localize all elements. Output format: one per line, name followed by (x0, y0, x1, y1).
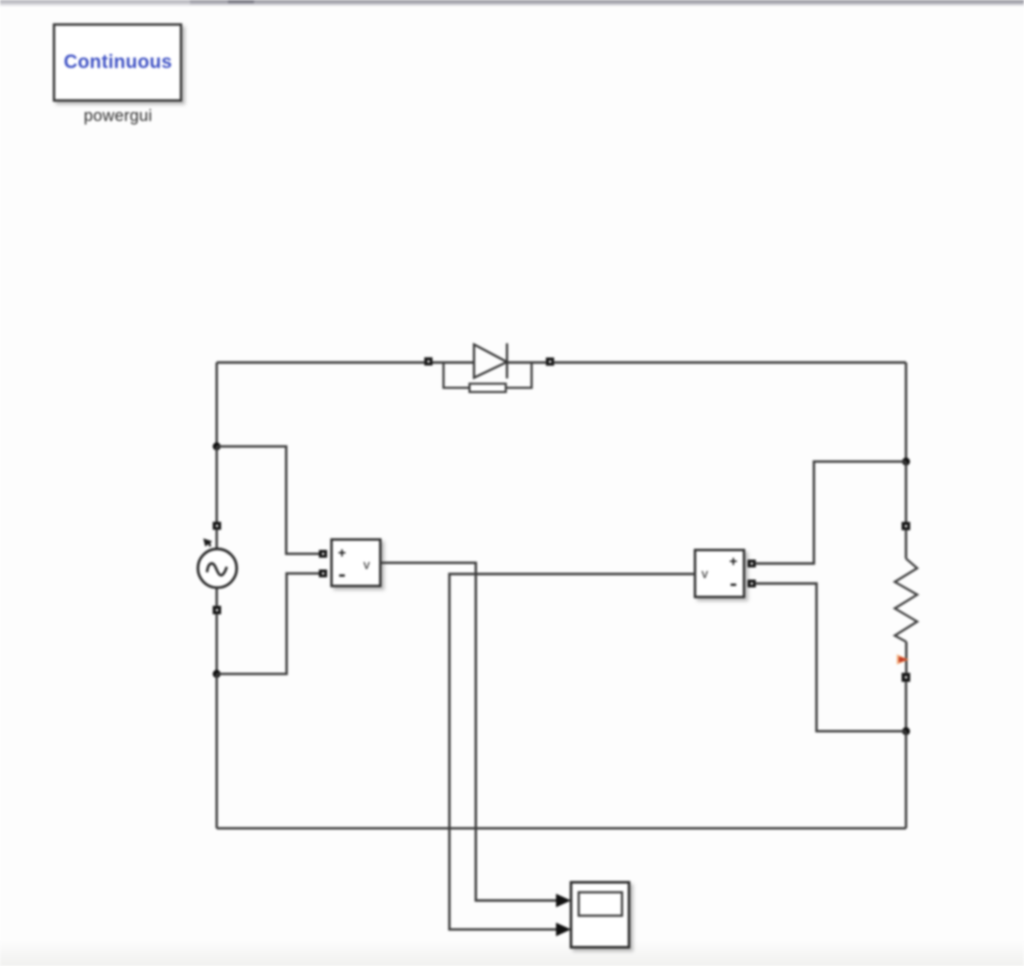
port: V1 plus input (319, 550, 327, 558)
scope input 2 arrowhead (556, 923, 571, 937)
snubber resistor Rs (470, 384, 506, 392)
svg-text:+: + (338, 545, 346, 561)
port: U2 minus input (748, 580, 756, 588)
wire: anode port to diode (433, 361, 475, 363)
port: U2 plus input (748, 560, 756, 568)
port: AC source minus terminal (213, 606, 221, 615)
wire: top rail left segment (217, 361, 425, 363)
node junction J1 (213, 442, 221, 450)
wire: U2 plus to J3 (756, 462, 906, 564)
diode D1 cathode bar (506, 343, 508, 378)
port: diode cathode (546, 358, 554, 366)
wire: J3 down to resistor top port (905, 462, 907, 522)
wire: bottom port down to J4 (905, 682, 907, 731)
wire: U2 output to scope input 2 (449, 574, 695, 929)
diode D1 triangle (474, 344, 507, 377)
wire: branch J1 to V1 plus input (217, 446, 319, 553)
wire: top-left vertical (source to top rail) (215, 363, 217, 447)
wire: bottom-left vertical J2 to bottom rail (215, 674, 217, 828)
voltage measurement U2 (695, 550, 744, 597)
wire: U2 minus to J4 (756, 584, 906, 732)
svg-text:+: + (729, 553, 737, 569)
scope input 1 arrowhead (556, 894, 571, 908)
svg-text:powergui: powergui (84, 107, 153, 125)
AC voltage source V (circle with sine) (198, 549, 237, 588)
port: resistor R1 top (902, 522, 911, 530)
svg-text:Continuous: Continuous (64, 52, 173, 73)
node junction J4 (902, 727, 910, 735)
wire: top rail right segment (554, 361, 906, 363)
powergui block (54, 25, 181, 101)
wire: source bottom port down to J2 (215, 614, 217, 674)
wire: right vertical top rail to J3 (905, 363, 907, 462)
svg-text:v: v (702, 566, 709, 581)
polarity arrow of AC source (203, 538, 212, 546)
port: AC source plus terminal (213, 522, 221, 530)
diagnostic orange arrow marker (897, 654, 910, 664)
wire: port to AC source circle (215, 530, 217, 550)
wire: zigzag to bottom port (905, 642, 907, 673)
resistor R1 zigzag (895, 559, 917, 642)
voltage measurement U1 (332, 540, 381, 587)
snubber branch left bracket (444, 363, 470, 388)
node junction J2 (213, 670, 221, 678)
wire: J4 down to bottom rail (905, 731, 907, 828)
port: V1 minus input (319, 570, 327, 578)
node junction J3 (902, 458, 910, 466)
snubber branch right bracket (506, 363, 532, 388)
port: resistor R1 bottom (902, 673, 911, 682)
wire: J1 down to source top port (215, 446, 217, 522)
wire: diode to cathode port (507, 361, 546, 363)
wire: bottom rail (217, 827, 906, 829)
scope block (571, 882, 629, 947)
port: diode anode (424, 357, 432, 365)
wire: branch J2 to V1 minus input (217, 573, 319, 674)
wire: U1 output to scope input 1 (380, 563, 557, 901)
wire: port to zigzag (905, 530, 907, 558)
wire: AC source circle to bottom port (215, 588, 217, 606)
svg-text:v: v (363, 557, 370, 572)
